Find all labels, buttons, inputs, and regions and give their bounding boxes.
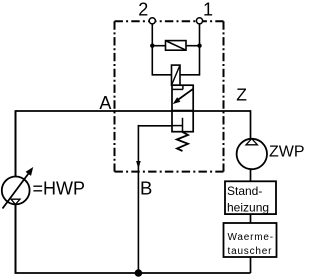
svg-text:Z: Z: [236, 85, 247, 105]
svg-text:=HWP: =HWP: [33, 178, 86, 198]
svg-text:ZWP: ZWP: [269, 143, 305, 160]
svg-text:2: 2: [138, 0, 148, 20]
svg-text:A: A: [99, 93, 111, 113]
svg-text:Waerme-: Waerme-: [228, 232, 274, 243]
svg-text:tauscher: tauscher: [228, 246, 273, 257]
svg-text:B: B: [140, 178, 152, 199]
svg-text:Stand-: Stand-: [227, 184, 262, 198]
svg-text:heizung: heizung: [227, 200, 269, 214]
svg-text:1: 1: [203, 0, 213, 20]
